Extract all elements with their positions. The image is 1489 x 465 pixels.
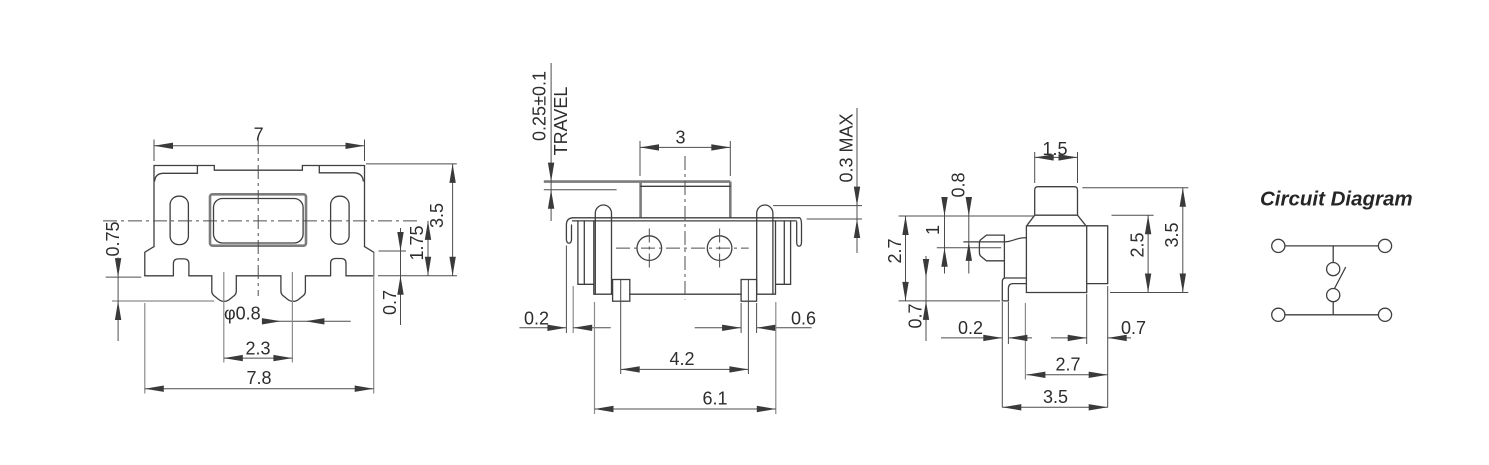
terminal 1 [1272, 239, 1285, 252]
svg-text:0.8: 0.8 [949, 172, 969, 197]
wire center tap lower [1332, 302, 1334, 315]
dim 6.1 extension lines [595, 302, 776, 414]
dim 3.5 right extension lines [1082, 188, 1188, 293]
contact rivet right [707, 236, 732, 261]
svg-text:4.2: 4.2 [669, 349, 694, 369]
dim 7.8 line [145, 388, 374, 390]
svg-text:0.7: 0.7 [380, 290, 400, 315]
dim 2.7 bottom line [1026, 374, 1107, 376]
dim 3.5 bottom line [1002, 406, 1107, 408]
button top edge with travel extension [544, 180, 731, 183]
body block front [594, 221, 776, 294]
ear tab left [595, 205, 611, 294]
bottom notch 1 [173, 259, 189, 276]
cover seam right [319, 166, 363, 181]
body side outline [1026, 226, 1107, 293]
button inner rounded rect [214, 199, 304, 244]
dim 0.7 line [400, 228, 402, 325]
cover lid double line [573, 217, 800, 219]
dim 2.3 line [224, 357, 293, 359]
travel pressed line [544, 189, 617, 191]
bottom notch 2 [331, 259, 346, 276]
ear tab right [757, 205, 773, 294]
dim 0.75 line [117, 258, 119, 342]
svg-text:1.5: 1.5 [1042, 139, 1067, 159]
svg-text:3.5: 3.5 [427, 203, 447, 228]
svg-text:2.7: 2.7 [885, 238, 905, 263]
dim foot bottom extension [899, 300, 1001, 302]
svg-text:2.5: 2.5 [1128, 232, 1148, 257]
dim 6.1 line [595, 408, 776, 410]
svg-text:3: 3 [675, 128, 685, 148]
actuator button front [641, 182, 731, 218]
vertical centerline [257, 140, 259, 296]
dim 7.8 extension lines [145, 253, 374, 394]
dim 0.6 extension lines [741, 303, 757, 333]
svg-text:Circuit Diagram: Circuit Diagram [1260, 188, 1413, 211]
dim 2.3 extension lines [224, 272, 293, 363]
terminal pin side [979, 235, 1004, 261]
svg-text:1: 1 [923, 225, 943, 235]
svg-text:7.8: 7.8 [246, 368, 271, 388]
svg-text:1.75: 1.75 [407, 225, 427, 260]
contact upper [1327, 263, 1340, 276]
dim 1.5 extension lines [1035, 152, 1078, 183]
svg-text:3.5: 3.5 [1162, 222, 1182, 247]
dim 0.2 bottom line [941, 337, 1032, 339]
crosshair vertical left [648, 229, 650, 268]
cover right bent tab [797, 218, 802, 246]
button side profile [1035, 187, 1078, 216]
wire top rail [1285, 245, 1378, 247]
dim 0.6 line [695, 327, 812, 329]
dim 3 extension lines [640, 141, 730, 176]
dim 0.2 mid line [519, 327, 610, 329]
button outer frame [210, 194, 306, 245]
dim 7 line [154, 145, 365, 147]
terminal 2 [1378, 239, 1391, 252]
dim 1.75 line [427, 221, 429, 276]
dim 7 extension lines [154, 140, 365, 162]
svg-text:0.7: 0.7 [906, 303, 926, 328]
dim 0.7 left line [925, 256, 927, 341]
terminal 3 [1272, 308, 1285, 321]
svg-text:0.6: 0.6 [791, 309, 816, 329]
svg-text:0.3 MAX: 0.3 MAX [837, 113, 857, 182]
terminal 4 [1378, 308, 1391, 321]
horizontal centerline [103, 220, 417, 222]
dim 2.5 extension line [1112, 214, 1154, 216]
dim 0.3max line [856, 108, 858, 253]
dim 2.5 line [1147, 215, 1149, 292]
svg-text:φ0.8: φ0.8 [224, 304, 261, 324]
dim 4.2 line [621, 368, 749, 370]
body outline top view [154, 166, 365, 247]
notch under pin [1004, 277, 1026, 279]
dim 0.7 bottom line [1051, 337, 1131, 339]
foot tab left [613, 280, 630, 302]
svg-text:0.2: 0.2 [958, 318, 983, 338]
dim 3.5 line [452, 164, 454, 276]
dim 0.2 mid extension lines [565, 246, 567, 334]
pin mid line with root curve [964, 238, 1027, 242]
dim 1 line [944, 206, 946, 274]
dim 0.7 extension line [379, 250, 407, 252]
crosshair horizontal [616, 247, 749, 249]
leg outer edge [1002, 278, 1008, 301]
svg-text:7: 7 [254, 125, 264, 145]
svg-text:6.1: 6.1 [702, 388, 727, 408]
dim 2.7 left line [905, 216, 907, 301]
bottom edge segments [145, 275, 374, 277]
body left extension down [1024, 303, 1026, 380]
dim 1 extension line (pin center) [937, 247, 1001, 249]
right flange step [365, 247, 374, 276]
dim 4.2 extension lines [621, 280, 749, 375]
dim phi0.8 line [270, 320, 350, 322]
dim 3.5 extension line top [366, 164, 457, 276]
svg-text:0.7: 0.7 [1121, 318, 1146, 338]
svg-text:0.2: 0.2 [524, 309, 549, 329]
cover left bent tab [566, 218, 572, 243]
dim 0.75 extension lines [106, 276, 142, 278]
button step line [641, 185, 731, 187]
svg-text:0.25±0.1: 0.25±0.1 [530, 71, 550, 141]
wire center tap upper [1332, 246, 1334, 263]
leg bend [1008, 284, 1026, 301]
cover side strip right [776, 221, 791, 284]
leg extension lines down [1002, 302, 1008, 408]
dim top extension line (stem base) [899, 215, 1035, 217]
pin 1 [212, 276, 237, 302]
left flange step [145, 247, 154, 276]
body lid inner edge and bottom notch [1087, 226, 1108, 293]
svg-text:TRAVEL: TRAVEL [551, 87, 571, 156]
foot tab right [741, 280, 757, 302]
switch actuator arm [1335, 268, 1346, 289]
left slot [170, 196, 188, 244]
right slot [331, 196, 350, 244]
contact lower [1327, 289, 1340, 302]
cover seam left [155, 166, 198, 181]
cover side strip left [578, 221, 594, 284]
contact rivet left [637, 236, 662, 261]
body right extension down [1107, 286, 1109, 408]
dim travel line [550, 63, 552, 221]
svg-text:2.3: 2.3 [245, 339, 270, 359]
dim 3 line [640, 146, 730, 148]
svg-text:3.5: 3.5 [1043, 387, 1068, 407]
pin face vertical [1003, 235, 1005, 278]
svg-text:2.7: 2.7 [1055, 354, 1080, 374]
wire bottom rail [1285, 314, 1378, 316]
dim 3.5 right line [1182, 188, 1184, 293]
dim 0.3max extension lines [773, 206, 862, 219]
notch extension down [1086, 294, 1088, 344]
pin 2 [281, 276, 306, 302]
vertical centerline mid view [684, 156, 686, 300]
dim 0.8 line [968, 206, 970, 274]
crosshair vertical right [719, 229, 721, 268]
actuator base trapezoid [1027, 215, 1085, 225]
dim 1.5 line [1035, 156, 1078, 158]
svg-text:0.75: 0.75 [103, 221, 123, 256]
